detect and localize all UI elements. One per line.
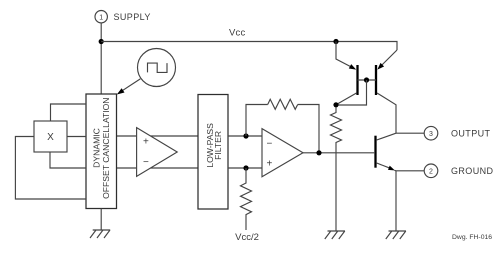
resistor R3 (Vcc/2 bias): [241, 168, 252, 230]
op-amp A2: [262, 129, 303, 177]
svg-text:DYNAMIC: DYNAMIC: [91, 128, 101, 168]
svg-text:+: +: [143, 136, 149, 147]
transistor Q3 NPN base bar: [374, 136, 376, 168]
wire hall top: [51, 104, 87, 121]
wire left PNP emitter feed: [336, 42, 353, 68]
wire supply vertical: [100, 23, 102, 94]
transistor Q3 emitter arrow: [388, 166, 395, 171]
svg-text:OUTPUT: OUTPUT: [451, 128, 490, 138]
junction supply node: [99, 39, 104, 44]
resistor R1 (mirror load): [331, 107, 342, 231]
Hall element X box: [34, 121, 67, 152]
terminal 1 SUPPLY circle: [95, 11, 107, 23]
transistor Q1 emitter arrow: [349, 64, 356, 70]
wire opamp output to Q3 base: [303, 152, 374, 154]
wire DOC ground: [100, 209, 102, 231]
wire Vcc rail: [101, 42, 397, 51]
wire emitter node: [396, 171, 424, 231]
junction mirror node: [333, 102, 338, 107]
svg-text:3: 3: [429, 131, 433, 138]
wire feedback loop: [246, 105, 319, 153]
svg-text:Dwg. FH-016: Dwg. FH-016: [452, 234, 492, 241]
transistor Q1 PNP base bar: [356, 65, 358, 95]
junction Vcc rail node: [333, 39, 338, 44]
wire hall left loop: [15, 137, 86, 200]
junction minus input: [243, 133, 248, 138]
svg-text:1: 1: [99, 14, 103, 21]
svg-text:FILTER: FILTER: [213, 131, 223, 160]
svg-text:X: X: [47, 132, 54, 143]
wire right PNP emitter feed: [381, 50, 397, 66]
junction output feedback: [316, 150, 321, 155]
wire base tie: [358, 79, 377, 81]
op-amp A1: [137, 128, 178, 177]
ground (mirror): [325, 231, 345, 239]
svg-text:SUPPLY: SUPPLY: [114, 12, 151, 22]
block DYNAMIC OFFSET CANCELLATION: [86, 94, 117, 209]
svg-text:+: +: [267, 159, 273, 170]
terminal 2 GROUND circle: [424, 164, 438, 178]
clock square wave: [148, 63, 168, 72]
wire hall bottom: [50, 152, 86, 168]
wire LPF to opamp bottom: [228, 167, 262, 169]
block LOW-PASS FILTER: [198, 95, 228, 210]
wire hall right: [67, 136, 86, 138]
svg-text:Vcc/2: Vcc/2: [235, 232, 259, 243]
clock oscillator circle: [138, 49, 176, 87]
terminal 3 OUTPUT circle: [424, 126, 438, 140]
svg-text:Vcc: Vcc: [229, 28, 245, 39]
svg-text:OFFSET CANCELLATION: OFFSET CANCELLATION: [101, 97, 111, 198]
wire amp1 input top: [117, 135, 199, 137]
wire Q1 collector: [336, 93, 357, 105]
clock arrow: [122, 79, 141, 91]
wire Q3 collector: [377, 133, 396, 140]
wire Q2 collector: [377, 93, 396, 133]
ground (emitter): [386, 231, 406, 239]
ground (DOC): [90, 230, 110, 238]
clock arrowhead: [117, 88, 125, 94]
svg-text:2: 2: [429, 169, 433, 176]
wire output node to terminal: [396, 132, 424, 134]
svg-text:−: −: [143, 157, 149, 168]
transistor Q2 emitter arrow: [377, 63, 384, 70]
wire amp1 input bottom: [117, 167, 199, 169]
svg-text:GROUND: GROUND: [451, 166, 493, 176]
wire Q3 emitter: [377, 163, 396, 171]
junction base tie: [364, 77, 369, 82]
wire LPF to opamp top: [228, 135, 262, 137]
wire base to mirror node: [336, 80, 367, 105]
junction plus input: [243, 165, 248, 170]
svg-text:−: −: [267, 138, 273, 149]
resistor R2 (feedback): [268, 99, 298, 109]
transistor Q2 PNP base bar: [375, 65, 377, 95]
